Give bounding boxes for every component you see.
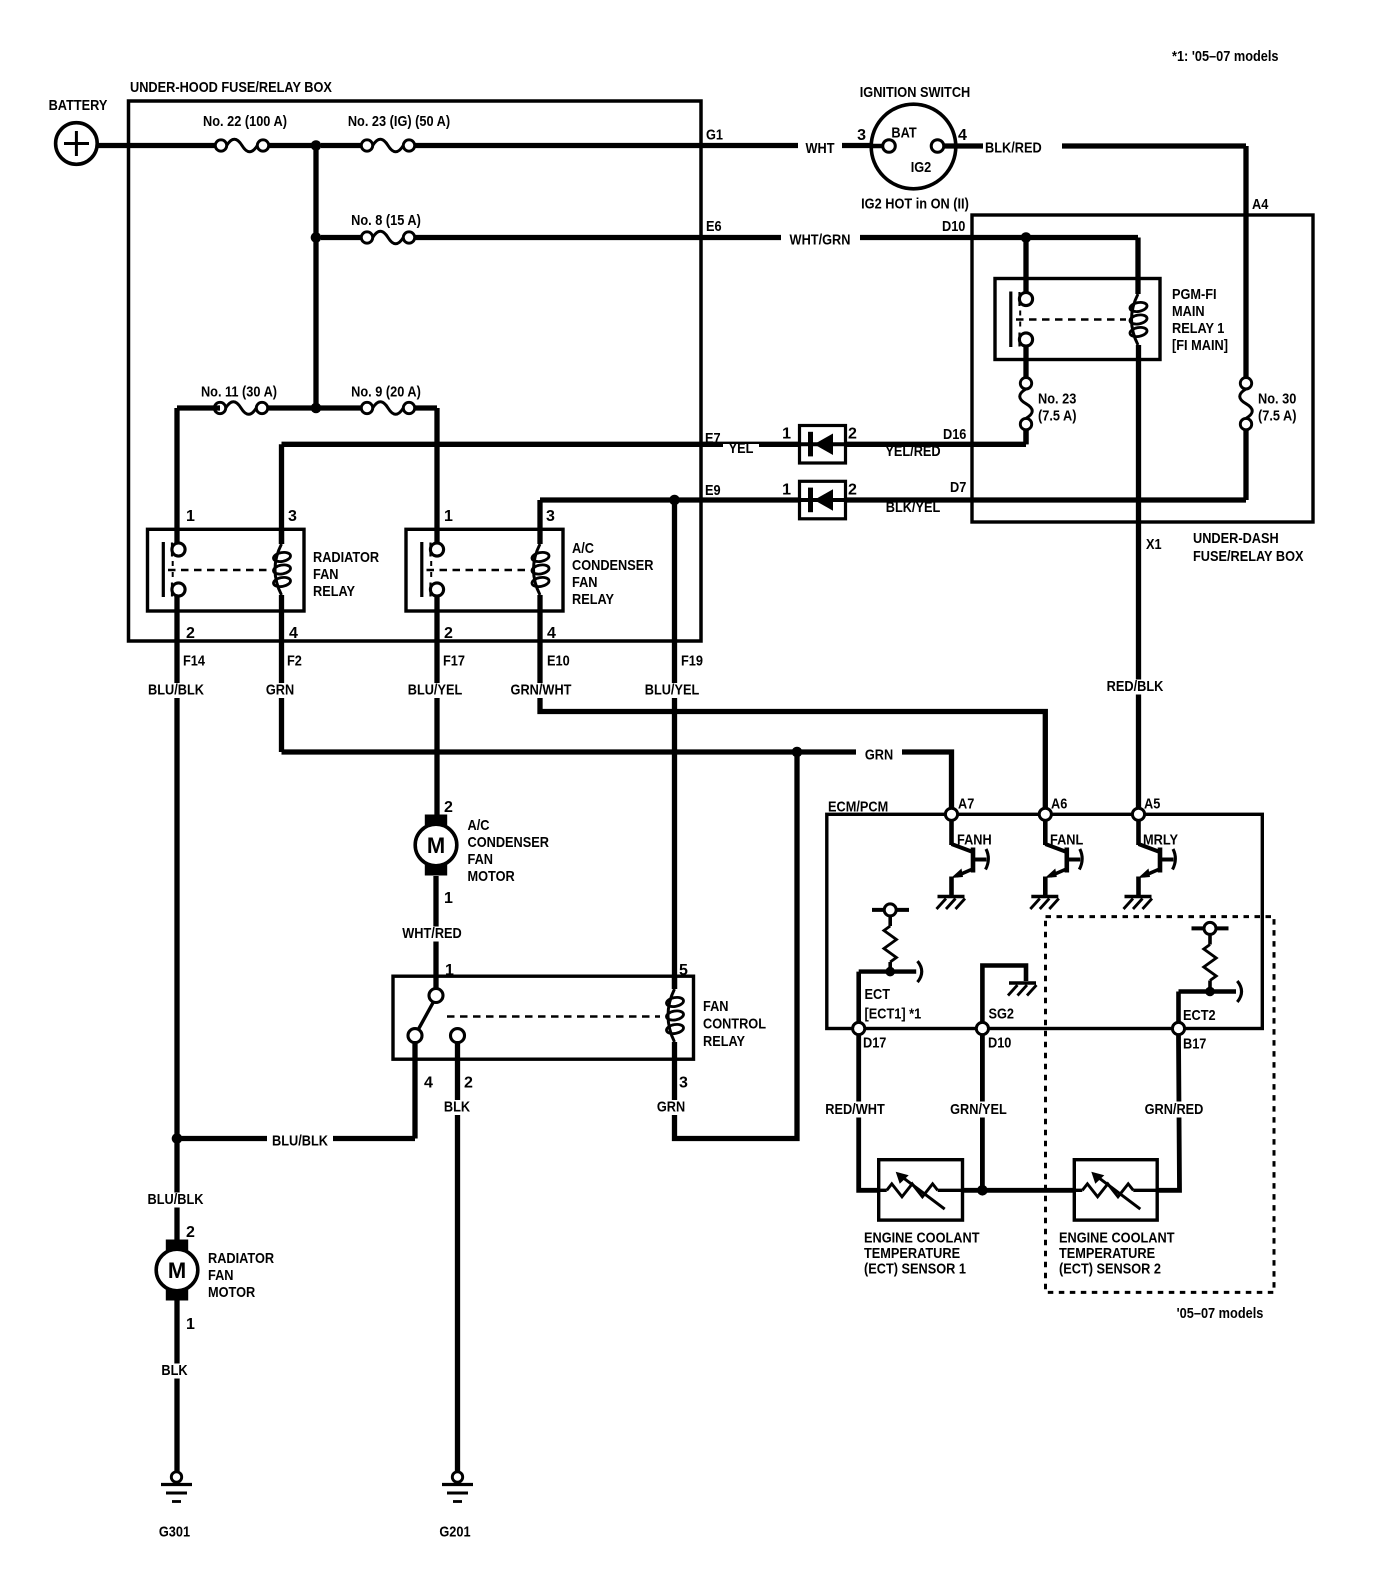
svg-text:2: 2: [848, 426, 857, 443]
fuse No.23 (7.5 A): [1020, 389, 1033, 418]
svg-text:2: 2: [848, 482, 857, 499]
pin 2 a/c relay: [434, 597, 439, 642]
relay radiator dashed link: [168, 569, 268, 572]
svg-text:2: 2: [186, 625, 195, 642]
fuse No.30 (7.5 A): [1240, 389, 1253, 418]
svg-text:UNDER-HOOD FUSE/RELAY BOX: UNDER-HOOD FUSE/RELAY BOX: [130, 79, 332, 96]
wire fuse No.30 to D7 row: [1243, 430, 1248, 500]
terminal B17: [1172, 1022, 1184, 1034]
svg-text:BLU/YEL: BLU/YEL: [408, 682, 463, 699]
diode D2 box: [800, 481, 846, 519]
svg-text:GRN/WHT: GRN/WHT: [511, 682, 572, 699]
svg-text:[ECT1] *1: [ECT1] *1: [865, 1006, 922, 1023]
diode D1 box: [800, 426, 846, 464]
dashed box '05-07 models: [1046, 917, 1275, 1293]
ECM/PCM box: [827, 814, 1263, 1028]
under-hood fuse/relay box: [129, 101, 702, 641]
svg-text:FAN: FAN: [313, 566, 339, 583]
wire fuse9 right drop: [414, 405, 437, 410]
svg-text:IG2: IG2: [911, 159, 932, 176]
wire battery to fuse box: [97, 143, 221, 148]
svg-text:RADIATOR: RADIATOR: [208, 1250, 274, 1267]
svg-text:TEMPERATURE: TEMPERATURE: [1059, 1245, 1155, 1262]
transistor FANL: [1043, 820, 1048, 845]
svg-text:No. 23: No. 23: [1038, 391, 1076, 408]
wire D10 to PGM-FI relay: [1023, 238, 1028, 293]
svg-text:FAN: FAN: [208, 1267, 234, 1284]
svg-text:GRN: GRN: [266, 682, 294, 699]
relay a/c fan contacts: [420, 542, 423, 597]
svg-text:4: 4: [547, 625, 556, 642]
svg-text:(ECT) SENSOR 2: (ECT) SENSOR 2: [1059, 1261, 1161, 1278]
svg-text:SG2: SG2: [989, 1006, 1015, 1023]
wire E9 BLK/YEL row: [540, 497, 800, 502]
svg-text:E10: E10: [547, 653, 570, 670]
svg-text:CONDENSER: CONDENSER: [572, 557, 654, 574]
wire node to fuse9: [267, 405, 361, 410]
transistor FANH: [949, 820, 954, 845]
relay fan control contact 2: [451, 1029, 465, 1043]
svg-text:BLU/BLK: BLU/BLK: [148, 1191, 204, 1208]
svg-text:GRN/RED: GRN/RED: [1145, 1101, 1204, 1118]
svg-text:M: M: [427, 833, 445, 858]
wire fuse No.23 to D16: [1023, 430, 1028, 445]
svg-text:G301: G301: [159, 1524, 190, 1541]
svg-text:M: M: [168, 1258, 186, 1283]
terminal D10 (ECM): [976, 1022, 988, 1034]
wire BLU/YEL F17 down to a/c fan motor: [434, 641, 439, 815]
resistor ECT1 pull-up: [872, 908, 909, 912]
svg-text:2: 2: [444, 799, 453, 816]
node fuse bus C: [311, 403, 322, 414]
svg-text:A/C: A/C: [468, 817, 490, 834]
svg-text:WHT/GRN: WHT/GRN: [790, 232, 851, 249]
relay fan control coil: [672, 976, 677, 989]
svg-text:CONDENSER: CONDENSER: [468, 834, 550, 851]
svg-text:A4: A4: [1252, 196, 1269, 213]
svg-text:FAN: FAN: [572, 574, 598, 591]
wire GRN row to A7: [282, 752, 952, 808]
wire BLK motor to G301: [174, 1301, 179, 1472]
wire fuse22 to node: [268, 143, 316, 148]
svg-text:ECT: ECT: [865, 986, 891, 1003]
motor RADIATOR FAN MOTOR: [166, 1240, 188, 1254]
svg-text:No. 9 (20 A): No. 9 (20 A): [351, 384, 421, 401]
relay fan control common contact: [429, 989, 443, 1003]
svg-text:No. 11 (30 A): No. 11 (30 A): [201, 384, 277, 401]
wire YEL/RED diode1 to D16: [846, 442, 1027, 447]
svg-text:GRN: GRN: [865, 747, 893, 764]
svg-text:No. 30: No. 30: [1258, 391, 1296, 408]
wire main bus vertical: [313, 146, 318, 409]
battery: [56, 123, 98, 165]
wire PGM-FI switch to fuse No.23: [1023, 346, 1028, 378]
wire BLU/BLK branch to relay pin 4: [177, 1136, 415, 1141]
ground G201: [452, 1472, 462, 1482]
svg-text:BAT: BAT: [891, 125, 916, 142]
svg-text:BLU/BLK: BLU/BLK: [272, 1133, 328, 1150]
svg-text:YEL: YEL: [729, 440, 754, 457]
terminal D17: [853, 1022, 865, 1034]
wire WHT/RED motor to fan control relay: [433, 876, 438, 989]
svg-text:A/C: A/C: [572, 540, 594, 557]
svg-text:1: 1: [444, 890, 453, 907]
under-dash fuse/relay box: [972, 215, 1313, 522]
relay FAN CONTROL RELAY box: [393, 976, 694, 1059]
relay RADIATOR FAN RELAY box: [148, 529, 305, 611]
svg-text:*1: '05–07 models: *1: '05–07 models: [1172, 48, 1279, 65]
svg-text:GRN: GRN: [657, 1099, 685, 1116]
node GRN/YEL junction: [977, 1185, 988, 1196]
svg-text:1: 1: [186, 508, 195, 525]
node D10 junction: [1021, 232, 1032, 243]
wire BLU/BLK F14 down: [174, 641, 179, 1240]
svg-text:[FI MAIN]: [FI MAIN]: [1172, 337, 1228, 354]
svg-text:PGM-FI: PGM-FI: [1172, 286, 1217, 303]
node fuse bus B: [311, 232, 322, 243]
svg-text:WHT/RED: WHT/RED: [402, 925, 462, 942]
thermistor ENGINE COOLANT TEMPERATURE (ECT) SENSOR 2: [1074, 1160, 1157, 1220]
svg-text:RADIATOR: RADIATOR: [313, 549, 379, 566]
svg-text:3: 3: [546, 508, 555, 525]
svg-text:D17: D17: [863, 1035, 886, 1052]
motor A/C CONDENSER FAN MOTOR: [425, 815, 447, 829]
diode D1: [800, 442, 846, 446]
svg-text:BLK/YEL: BLK/YEL: [886, 499, 941, 516]
svg-text:BLK: BLK: [444, 1099, 470, 1116]
svg-text:No. 22 (100 A): No. 22 (100 A): [203, 113, 287, 130]
wire BLK/RED ignition to A4: [944, 143, 983, 148]
node fuse bus A: [311, 140, 322, 151]
svg-text:'05–07 models: '05–07 models: [1177, 1305, 1264, 1322]
ground G301: [171, 1472, 181, 1482]
svg-text:BLU/BLK: BLU/BLK: [148, 682, 204, 699]
diode D2: [800, 498, 846, 502]
svg-text:A5: A5: [1144, 796, 1160, 813]
relay a/c dashed link: [427, 569, 528, 572]
svg-text:MOTOR: MOTOR: [468, 868, 515, 885]
svg-text:F19: F19: [681, 653, 703, 670]
svg-text:RELAY: RELAY: [572, 591, 614, 608]
svg-text:IG2 HOT in ON (II): IG2 HOT in ON (II): [861, 196, 969, 213]
wire E7 YEL row: [282, 442, 800, 447]
terminal A7 FANH: [945, 808, 957, 820]
relay PGM-FI dashed link: [1016, 318, 1126, 321]
svg-text:BLK/RED: BLK/RED: [985, 140, 1042, 157]
svg-text:No. 23 (IG) (50 A): No. 23 (IG) (50 A): [348, 113, 450, 130]
wire GRN/WHT E10 to A6: [540, 611, 1045, 808]
svg-text:X1: X1: [1146, 536, 1162, 553]
svg-text:4: 4: [958, 127, 967, 144]
svg-text:(7.5 A): (7.5 A): [1038, 408, 1077, 425]
svg-text:D16: D16: [943, 426, 966, 443]
svg-text:MAIN: MAIN: [1172, 303, 1205, 320]
wire fuse11 left drop: [177, 405, 220, 410]
svg-text:D7: D7: [950, 479, 966, 496]
wire G1 to ignition switch: [701, 143, 801, 148]
wire GRN/RED B17 to ECT sensor 2: [1157, 1035, 1179, 1191]
svg-text:ECM/PCM: ECM/PCM: [828, 799, 888, 816]
transistor MRLY: [1136, 820, 1141, 845]
svg-text:RELAY: RELAY: [313, 583, 355, 600]
ground SG2: [982, 966, 1026, 1023]
svg-text:2: 2: [464, 1075, 473, 1092]
relay a/c fan coil: [534, 544, 541, 595]
svg-text:E9: E9: [705, 482, 721, 499]
svg-text:RELAY 1: RELAY 1: [1172, 320, 1224, 337]
svg-text:1: 1: [782, 426, 791, 443]
svg-text:A7: A7: [958, 796, 974, 813]
relay fan control contact 4: [408, 1029, 422, 1043]
svg-text:WHT: WHT: [806, 140, 835, 157]
svg-text:ECT2: ECT2: [1183, 1007, 1216, 1024]
svg-text:RED/WHT: RED/WHT: [825, 1101, 885, 1118]
relay PGM-FI coil: [1132, 294, 1139, 345]
svg-text:(ECT) SENSOR 1: (ECT) SENSOR 1: [864, 1261, 966, 1278]
relay fan control dashed link: [447, 1015, 660, 1018]
svg-text:D10: D10: [942, 218, 965, 235]
pin 4 fan control relay: [412, 1043, 417, 1139]
wire G1 row: [414, 143, 701, 148]
svg-text:3: 3: [857, 127, 866, 144]
svg-text:2: 2: [444, 625, 453, 642]
svg-text:(7.5 A): (7.5 A): [1258, 408, 1297, 425]
svg-text:No. 8 (15 A): No. 8 (15 A): [351, 212, 421, 229]
svg-text:D10: D10: [988, 1035, 1011, 1052]
svg-text:FUSE/RELAY BOX: FUSE/RELAY BOX: [1193, 548, 1304, 565]
wire BLU/BLK label above radiator fan motor: [141, 1193, 211, 1208]
svg-text:ENGINE COOLANT: ENGINE COOLANT: [864, 1230, 980, 1247]
node GRN junction: [792, 747, 803, 758]
pin 2 radiator relay: [174, 597, 179, 642]
svg-text:FAN: FAN: [468, 851, 494, 868]
svg-text:4: 4: [424, 1075, 433, 1092]
resistor ECT2 pull-up: [1192, 926, 1229, 930]
svg-text:1: 1: [444, 508, 453, 525]
svg-text:FAN: FAN: [703, 998, 729, 1015]
svg-text:B17: B17: [1183, 1036, 1206, 1053]
svg-text:F2: F2: [287, 653, 302, 670]
relay PGM-FI contacts: [1009, 292, 1012, 348]
svg-text:F14: F14: [183, 653, 206, 670]
svg-text:G201: G201: [439, 1524, 470, 1541]
node F19 branch: [669, 495, 680, 506]
wire E6 row: [414, 235, 701, 240]
svg-text:RED/BLK: RED/BLK: [1107, 678, 1164, 695]
svg-text:MOTOR: MOTOR: [208, 1284, 255, 1301]
svg-text:F17: F17: [443, 653, 465, 670]
svg-text:CONTROL: CONTROL: [703, 1016, 766, 1033]
svg-text:1: 1: [186, 1316, 195, 1333]
relay A/C CONDENSER FAN RELAY box: [406, 529, 563, 611]
terminal A6 FANL: [1039, 808, 1051, 820]
wire GRN/YEL D10 to sensor row: [980, 1035, 985, 1191]
relay radiator fan coil: [279, 529, 284, 544]
thermistor ENGINE COOLANT TEMPERATURE (ECT) SENSOR 1: [879, 1160, 963, 1220]
svg-text:BLK: BLK: [161, 1362, 187, 1379]
svg-text:IGNITION SWITCH: IGNITION SWITCH: [860, 84, 971, 101]
svg-text:RELAY: RELAY: [703, 1033, 745, 1050]
svg-text:YEL/RED: YEL/RED: [885, 443, 940, 460]
svg-text:E7: E7: [705, 430, 721, 447]
svg-text:UNDER-DASH: UNDER-DASH: [1193, 530, 1279, 547]
wire BLU/YEL F19 down to fan control relay: [672, 500, 677, 989]
svg-text:GRN/YEL: GRN/YEL: [950, 1101, 1007, 1118]
wire BLK/YEL diode2 to D7: [846, 497, 1247, 502]
pin 2 fan control relay wire BLK to G201: [455, 1043, 460, 1472]
svg-text:A6: A6: [1051, 796, 1067, 813]
svg-text:BLU/YEL: BLU/YEL: [645, 682, 700, 699]
svg-text:5: 5: [679, 962, 688, 979]
svg-text:G1: G1: [706, 127, 723, 144]
wire GRN junction down to fan control relay pin 3: [675, 752, 798, 1139]
relay radiator fan contacts: [162, 542, 165, 597]
node BLU/BLK junction: [172, 1133, 183, 1144]
wire RED/WHT D17 to ECT sensor 1: [859, 1035, 879, 1191]
svg-text:TEMPERATURE: TEMPERATURE: [864, 1245, 960, 1262]
relay PGM-FI MAIN RELAY 1 box: [995, 279, 1160, 360]
wire X1 RED/BLK relay coil to A5: [1136, 345, 1141, 808]
svg-text:3: 3: [679, 1075, 688, 1092]
svg-text:2: 2: [186, 1224, 195, 1241]
svg-text:ENGINE COOLANT: ENGINE COOLANT: [1059, 1230, 1175, 1247]
svg-text:BATTERY: BATTERY: [49, 97, 108, 114]
svg-text:1: 1: [782, 482, 791, 499]
wire WHT/GRN E6 to D10: [701, 235, 781, 240]
svg-text:4: 4: [289, 625, 298, 642]
wire sensor interconnect: [963, 1188, 1075, 1193]
svg-text:E6: E6: [706, 218, 722, 235]
wire GRN F2 down: [279, 611, 284, 752]
terminal A5 MRLY: [1132, 808, 1144, 820]
relay fan control blade: [418, 1002, 434, 1030]
svg-text:3: 3: [288, 508, 297, 525]
